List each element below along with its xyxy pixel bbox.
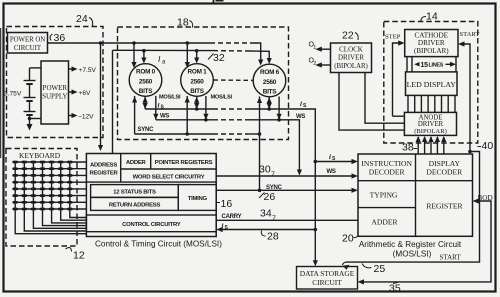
battery B1 3.75V bbox=[30, 67, 42, 69]
label 40 bbox=[482, 140, 494, 152]
svg-text:POINTER REGISTERS: POINTER REGISTERS bbox=[155, 160, 213, 166]
wire BOD line 35 bbox=[363, 201, 492, 282]
label BOD bbox=[478, 194, 493, 202]
svg-text:POWER: POWER bbox=[43, 84, 68, 92]
label 36 bbox=[54, 32, 66, 44]
label 15 lines bbox=[421, 62, 444, 69]
svg-text:WORD SELECT CIRCUITRY: WORD SELECT CIRCUITRY bbox=[133, 175, 205, 181]
ROM1 Is pin bbox=[196, 97, 198, 110]
svg-text:30: 30 bbox=[259, 164, 271, 176]
svg-text:CIRCUIT: CIRCUIT bbox=[312, 278, 342, 287]
svg-text:−12V: −12V bbox=[78, 114, 94, 121]
label 16 bbox=[221, 198, 233, 210]
svg-text:12: 12 bbox=[73, 250, 85, 262]
node battery-psu bbox=[28, 117, 32, 121]
svg-text:(MOS/LSI): (MOS/LSI) bbox=[393, 250, 432, 259]
12 status bits cell bbox=[91, 185, 179, 198]
wire rail2 drop to ROM0 bbox=[143, 51, 145, 59]
wire rail2 from control block bbox=[112, 50, 114, 153]
label phi1 bbox=[309, 42, 317, 52]
svg-text:LINES: LINES bbox=[429, 63, 444, 69]
wire sync drop to line 26 bbox=[259, 134, 261, 190]
clock driver U22 bbox=[331, 43, 372, 73]
svg-text:CARRY: CARRY bbox=[222, 214, 242, 220]
svg-text:START: START bbox=[440, 254, 462, 262]
svg-text:15: 15 bbox=[421, 62, 429, 69]
svg-text:BITS: BITS bbox=[190, 88, 205, 95]
svg-text:28: 28 bbox=[267, 231, 279, 243]
svg-text:DRIVER: DRIVER bbox=[418, 39, 445, 47]
svg-text:STEP: STEP bbox=[385, 34, 401, 41]
svg-text:(BIPOLAR): (BIPOLAR) bbox=[414, 47, 449, 55]
power on circuit U36 bbox=[8, 33, 48, 54]
anode driver U38 bbox=[404, 112, 456, 135]
wire Is into instruction decoder bbox=[315, 161, 353, 163]
svg-text:MOS/LSI: MOS/LSI bbox=[159, 95, 181, 101]
svg-text:DRIVER: DRIVER bbox=[338, 54, 364, 62]
node start-40 bbox=[468, 150, 472, 154]
ROM0 sync pin bbox=[134, 96, 136, 134]
svg-text:38: 38 bbox=[402, 142, 414, 154]
svg-text:CIRCUIT: CIRCUIT bbox=[14, 45, 42, 52]
wire step input bbox=[393, 43, 400, 116]
wire rail1 drop to control block bbox=[100, 43, 102, 146]
svg-text:DATA STORAGE: DATA STORAGE bbox=[300, 269, 355, 278]
svg-text:36: 36 bbox=[54, 32, 66, 44]
label WS left bbox=[160, 114, 169, 120]
svg-text:WS: WS bbox=[327, 169, 336, 175]
svg-text:40: 40 bbox=[482, 140, 494, 152]
wire phi1 output bbox=[317, 48, 331, 50]
node rail1-control bbox=[99, 41, 103, 45]
label MOS/LSI rom0 bbox=[159, 95, 181, 101]
divider column bbox=[415, 154, 417, 236]
svg-text:BITS: BITS bbox=[263, 89, 278, 96]
+7.5V output bbox=[69, 68, 74, 70]
ROM6 Is pin bbox=[268, 97, 270, 109]
svg-text:SUPPLY: SUPPLY bbox=[42, 93, 67, 101]
wire rail2 drop to ROM1 bbox=[196, 51, 198, 59]
-12V output bbox=[69, 115, 74, 117]
ROM section dashed box 18 bbox=[118, 27, 289, 140]
label 24 bbox=[76, 13, 88, 25]
address register cell bbox=[120, 154, 122, 183]
wire battery to psu bbox=[30, 118, 42, 120]
svg-text:TYPING: TYPING bbox=[370, 191, 398, 200]
svg-text:24: 24 bbox=[76, 13, 88, 25]
svg-text:2560: 2560 bbox=[190, 79, 204, 86]
svg-text:1: 1 bbox=[313, 45, 316, 51]
label Is right bbox=[300, 101, 307, 109]
register cell bbox=[426, 202, 463, 211]
svg-text:CLOCK: CLOCK bbox=[339, 46, 363, 54]
wire SYNC bus bbox=[135, 133, 213, 135]
svg-text:34: 34 bbox=[260, 208, 272, 220]
label START top bbox=[460, 31, 480, 38]
wire clock to anode driver input A bbox=[339, 73, 404, 131]
node 10 tick at top bbox=[213, 0, 215, 4]
svg-text:2: 2 bbox=[313, 61, 316, 67]
scan edge artifact bbox=[0, 28, 2, 158]
label 20 bbox=[342, 233, 354, 245]
wires anode to display decoder 5 lines bbox=[416, 136, 447, 154]
svg-text:LED DISPLAY: LED DISPLAY bbox=[407, 80, 457, 89]
wire rom1-rom6 dashed continuation bbox=[214, 79, 254, 81]
ROM6 sync pin bbox=[259, 97, 261, 135]
node rail2-rom0 bbox=[142, 49, 146, 53]
svg-text:2560: 2560 bbox=[139, 79, 153, 86]
display decoder cell bbox=[416, 180, 473, 182]
PLACEHOLDER-KEYBOARD bbox=[313, 154, 473, 266]
svg-text:3.75V: 3.75V bbox=[4, 91, 22, 98]
label Ia bbox=[158, 54, 166, 66]
+6V output bbox=[69, 91, 74, 93]
ROM 6 bbox=[253, 64, 286, 97]
svg-text:+7.5V: +7.5V bbox=[79, 67, 97, 74]
power section dashed box 24 bbox=[7, 27, 104, 138]
wire phi2 output bbox=[317, 64, 331, 66]
ROM0 Is pin bbox=[144, 97, 146, 110]
wire step to anode bbox=[393, 115, 405, 117]
svg-text:32: 32 bbox=[213, 52, 225, 64]
svg-text:WS: WS bbox=[160, 114, 169, 120]
svg-text:22: 22 bbox=[342, 30, 354, 42]
typing cell bbox=[358, 207, 416, 209]
wire rail1 drop to ROM0 bbox=[133, 43, 135, 63]
word select circuitry cell bbox=[86, 181, 216, 183]
label 22 bbox=[342, 30, 354, 42]
ROM1 ws pin bbox=[205, 96, 207, 120]
svg-text:Control & Timing Circuit (MOS/: Control & Timing Circuit (MOS/LSI) bbox=[95, 240, 222, 249]
keyboard matrix rows bbox=[15, 161, 86, 163]
wire start line from cathode bbox=[464, 44, 471, 152]
label 18 bbox=[177, 17, 189, 29]
instruction decoder cell bbox=[358, 180, 416, 182]
control circuitry cell bbox=[86, 215, 216, 232]
label phi2 bbox=[309, 58, 317, 68]
svg-text:2560: 2560 bbox=[263, 79, 277, 86]
svg-text:SYNC: SYNC bbox=[138, 127, 155, 133]
label MOS/LSI rom1 bbox=[211, 95, 233, 101]
label 38 bbox=[402, 142, 414, 154]
label 14 bbox=[426, 11, 438, 23]
15 lines bundle bbox=[406, 57, 408, 72]
svg-text:KEYBOARD: KEYBOARD bbox=[19, 151, 61, 160]
ROM1 sync pin bbox=[186, 96, 188, 134]
ground arrow bbox=[27, 124, 33, 131]
svg-text:TIMING: TIMING bbox=[188, 196, 208, 202]
cathode driver bbox=[405, 30, 458, 57]
wire Is bus bbox=[145, 108, 213, 110]
power supply bbox=[41, 61, 69, 124]
ROM0 ws pin bbox=[155, 96, 157, 120]
svg-text:REGISTER: REGISTER bbox=[89, 171, 118, 177]
svg-text:ADDRESS: ADDRESS bbox=[90, 163, 117, 169]
svg-text:+6V: +6V bbox=[79, 90, 92, 97]
label Is left bbox=[158, 103, 165, 111]
svg-text:ADDER: ADDER bbox=[126, 160, 147, 166]
wire line 28 Is to control bbox=[222, 229, 316, 231]
led display bbox=[406, 72, 458, 96]
svg-text:DECODER: DECODER bbox=[369, 168, 406, 177]
keyboard matrix columns bbox=[15, 162, 86, 234]
svg-text:7: 7 bbox=[272, 216, 276, 223]
svg-text:(BIPOLAR): (BIPOLAR) bbox=[334, 63, 368, 70]
svg-text:18: 18 bbox=[177, 17, 189, 29]
wire rail1 drop to ROM1 bbox=[186, 43, 188, 63]
ROM6 ws pin bbox=[278, 97, 280, 120]
svg-text:BITS: BITS bbox=[139, 88, 154, 95]
wire rail1 power-on output bbox=[48, 42, 211, 44]
ROM 0 bbox=[129, 64, 162, 97]
wire clock to anode driver input B bbox=[365, 73, 404, 124]
control and timing circuit U16 outer bbox=[86, 154, 216, 237]
arithmetic and register circuit U20 outer bbox=[358, 154, 473, 236]
keyboard key junction nodes bbox=[14, 162, 72, 209]
svg-text:26: 26 bbox=[264, 191, 276, 203]
wire WS bus bbox=[156, 119, 213, 121]
svg-text:WS: WS bbox=[296, 114, 305, 120]
svg-text:25: 25 bbox=[374, 263, 386, 275]
svg-text:REGISTER: REGISTER bbox=[426, 202, 463, 211]
svg-text:Arithmetic & Register Circuit: Arithmetic & Register Circuit bbox=[359, 240, 462, 249]
ROM 1 bbox=[181, 64, 214, 97]
keyboard dashed box 12 bbox=[6, 149, 77, 247]
svg-text:CONTROL CIRCUITRY: CONTROL CIRCUITRY bbox=[122, 222, 181, 228]
wire line 34 CARRY bbox=[216, 219, 358, 221]
label 32 bbox=[213, 52, 225, 64]
wire Is down to data storage bbox=[314, 162, 316, 262]
svg-text:(BIPOLAR): (BIPOLAR) bbox=[414, 128, 447, 135]
svg-text:ADDER: ADDER bbox=[371, 218, 398, 227]
pointer registers cell bbox=[121, 168, 217, 170]
svg-text:20: 20 bbox=[342, 233, 354, 245]
svg-text:ROM 1: ROM 1 bbox=[188, 69, 208, 76]
label WS right bbox=[296, 114, 305, 120]
svg-text:ROM 0: ROM 0 bbox=[136, 69, 156, 76]
label START bottom bbox=[440, 254, 462, 262]
node rail2-rom1 bbox=[195, 49, 199, 53]
svg-text:12 STATUS BITS: 12 STATUS BITS bbox=[113, 190, 156, 196]
svg-text:ROM 6: ROM 6 bbox=[260, 69, 280, 76]
label 12 bbox=[73, 250, 85, 262]
svg-text:DRIVER: DRIVER bbox=[418, 121, 444, 128]
svg-text:MOS/LSI: MOS/LSI bbox=[211, 95, 233, 101]
display section dashed box 14 bbox=[384, 22, 478, 144]
label 35 bbox=[389, 283, 401, 295]
svg-text:14: 14 bbox=[426, 11, 438, 23]
timing cell bbox=[178, 185, 216, 211]
return address cell bbox=[91, 197, 179, 210]
caption control and timing bbox=[95, 240, 222, 249]
svg-text:35: 35 bbox=[389, 283, 401, 295]
svg-text:POWER ON: POWER ON bbox=[10, 37, 45, 44]
wire line 30 WS to instruction decoder bbox=[216, 175, 353, 177]
label 25 bbox=[374, 263, 386, 275]
svg-text:16: 16 bbox=[221, 198, 233, 210]
wire line 26 SYNC to typing bbox=[216, 189, 353, 191]
wires led to anode 8 lines bbox=[407, 95, 409, 112]
node rail1-rom1 bbox=[186, 41, 190, 45]
data storage circuit U25 bbox=[297, 267, 358, 290]
adder cell bbox=[371, 218, 398, 227]
wire line 40 bbox=[346, 152, 480, 263]
svg-text:RETURN ADDRESS: RETURN ADDRESS bbox=[109, 203, 161, 209]
caption arithmetic bbox=[359, 240, 462, 259]
node rail1-rom0 bbox=[132, 41, 136, 45]
svg-text:START: START bbox=[460, 31, 480, 38]
svg-text:DECODER: DECODER bbox=[426, 168, 463, 177]
label SYNC left bbox=[138, 127, 155, 133]
adder cell bbox=[150, 154, 152, 170]
label STEP bbox=[385, 34, 401, 41]
svg-text:7: 7 bbox=[271, 172, 275, 179]
svg-text:BOD: BOD bbox=[478, 194, 493, 202]
